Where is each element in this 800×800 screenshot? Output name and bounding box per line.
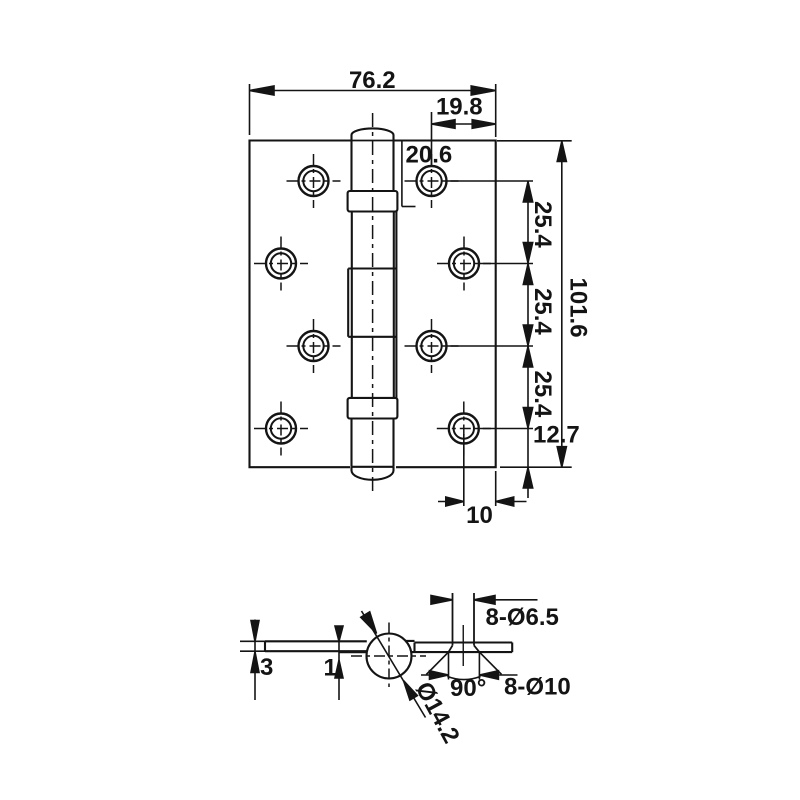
barrel middle knuckle [348,212,396,398]
extension lines for hole rows (right side) [447,181,533,429]
svg-text:10: 10 [466,502,493,529]
screw hole H5 (row1 right) [405,154,459,208]
barrel circle (section) [367,634,412,679]
svg-text:20.6: 20.6 [406,142,453,169]
dimension 19.8 [432,112,496,166]
dimension 76.2 [250,84,496,137]
dimension 3 (leaf thickness) [240,620,267,701]
countersink slope extension lines [426,652,501,679]
screw hole H6 (row2 right) [437,237,491,291]
barrel knuckle 3 [352,419,394,467]
svg-text:1: 1 [324,655,337,682]
barrel knuckle 1 [352,141,394,192]
barrel bearing ring 1 [348,191,398,212]
90 degree angle arc [447,676,480,679]
screw hole H1 (row1 left) [287,154,341,208]
dimension 20.6 leader [402,141,416,207]
svg-text:25.4: 25.4 [529,201,556,248]
screw hole H8 (row4 right) [437,402,491,456]
hinge leaf plate outline (front view) [250,141,496,468]
svg-text:90°: 90° [450,675,486,702]
barrel bottom dome cap [352,467,394,480]
screw hole H4 (row4 left) [254,402,308,456]
dimension 101.6 [497,141,572,467]
svg-text:25.4: 25.4 [529,288,556,335]
svg-text:25.4: 25.4 [529,371,556,418]
right leaf (section) [406,641,513,652]
dimension 8-Ø6.5 [431,596,538,605]
left leaf (section) [265,641,367,651]
screw hole H7 (row3 right) [405,319,459,373]
circle centerlines [351,623,426,688]
svg-text:8-Ø6.5: 8-Ø6.5 [486,604,559,631]
dimension 1 (clearance) [335,626,367,701]
barrel vertical centerline [372,113,374,496]
dimension line Ø14.2 through circle [361,611,426,718]
dimension 10 [438,434,527,506]
screw hole H3 (row3 left) [287,319,341,373]
screw hole H2 (row2 left) [254,237,308,291]
svg-text:8-Ø10: 8-Ø10 [504,674,571,701]
svg-text:3: 3 [260,654,273,681]
svg-text:101.6: 101.6 [565,278,592,338]
8-Ø10 arrows [421,671,518,680]
svg-text:19.8: 19.8 [436,94,483,121]
dimension chain line 25.4/12.7 [523,181,532,498]
svg-text:12.7: 12.7 [533,422,580,449]
barrel bearing ring 2 [348,398,398,419]
countersink flare in plate [449,645,480,652]
svg-text:76.2: 76.2 [349,67,396,94]
barrel top dome cap [352,128,394,140]
countersunk hole detail: hole walls [453,593,475,666]
